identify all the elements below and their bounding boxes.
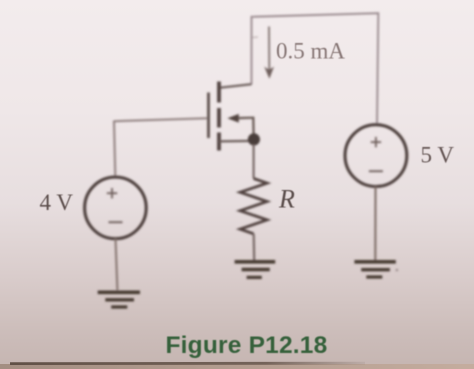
transistor Q1 body arrow [227, 114, 239, 123]
ground middle [235, 262, 276, 278]
V2 minus sign [369, 170, 383, 172]
wire top rail [252, 13, 379, 125]
stray mark [253, 36, 259, 39]
wire gate to source V1 [114, 121, 115, 178]
wire source stub [219, 140, 254, 143]
svg-text:4 V: 4 V [40, 190, 74, 215]
stray dot [396, 269, 399, 272]
voltage source V2 circle [345, 125, 407, 187]
caption Figure P12.18 [166, 332, 328, 359]
transistor Q1 gate bar [207, 93, 210, 139]
voltage source V1 circle [85, 177, 147, 239]
label 0.5 mA [276, 39, 345, 64]
ground right [354, 262, 395, 277]
wire gate lead [114, 118, 207, 121]
resistor R [240, 179, 267, 234]
wire body to node [238, 118, 254, 135]
label 4 V [40, 190, 74, 215]
svg-text:R: R [278, 185, 295, 214]
V1 minus sign [109, 221, 123, 223]
label 5 V [421, 143, 455, 168]
label R [278, 185, 295, 214]
svg-text:Figure P12.18: Figure P12.18 [166, 332, 328, 359]
V2 plus sign [371, 137, 381, 147]
svg-text:5 V: 5 V [421, 143, 455, 168]
current arrow 0.5 mA [264, 27, 274, 79]
wire V1 to ground [116, 239, 118, 291]
wire V2 to ground [374, 187, 376, 261]
ground left [98, 292, 140, 307]
wire drain stub [219, 84, 252, 88]
wire node to resistor [253, 144, 255, 179]
node junction dot [248, 133, 260, 145]
wire resistor to ground [253, 234, 256, 261]
transistor Q1 channel bar [217, 82, 221, 151]
V1 plus sign [107, 188, 117, 198]
svg-text:0.5 mA: 0.5 mA [276, 39, 345, 64]
